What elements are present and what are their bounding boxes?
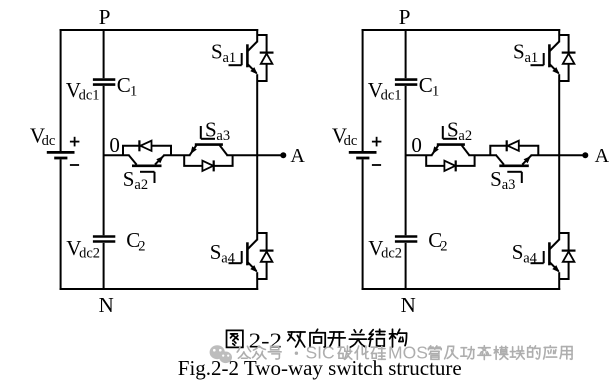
capacitor C1 xyxy=(395,80,417,85)
transistor Sa3 emitter arrow xyxy=(190,146,197,154)
transistor Sa1 IGBT body xyxy=(247,42,257,74)
caption line1 hanzi 图 xyxy=(227,330,243,347)
svg-text:A: A xyxy=(595,145,610,167)
wire left rail upper (P to battery) xyxy=(362,29,364,151)
wire diode loop below Sa3 xyxy=(184,155,232,166)
transistor Sa2 gate xyxy=(140,172,155,183)
svg-text:Fig.2-2 Two-way switch structu: Fig.2-2 Two-way switch structure xyxy=(178,356,462,380)
transistor Sa1 emitter arrow xyxy=(250,67,257,74)
diode of Sa3 (pointing left) xyxy=(508,141,519,151)
transistor Sa1 gate xyxy=(229,53,242,65)
wire diode loop below Sa2 xyxy=(426,155,474,166)
watermark hanzi 功 xyxy=(461,347,474,359)
diode of Sa2 (pointing right) xyxy=(444,161,455,171)
watermark logo bubble big xyxy=(210,345,225,359)
battery Vdc plates xyxy=(47,152,75,158)
svg-text:a3: a3 xyxy=(216,128,230,144)
svg-text:dc: dc xyxy=(42,133,56,149)
battery minus mark xyxy=(70,164,79,166)
transistor Sa2 IGBT body xyxy=(129,155,165,166)
wire left rail lower (battery to N) xyxy=(60,159,62,290)
caption line1 hanzi 关 xyxy=(349,330,366,347)
diode of Sa3 (pointing right) xyxy=(202,161,213,171)
wire capacitor branch upper (P to C1) xyxy=(405,29,407,78)
svg-text:0: 0 xyxy=(411,133,422,157)
battery plus mark xyxy=(70,137,80,147)
caption line1 hanzi 开 xyxy=(328,332,345,347)
wire top rail xyxy=(362,29,561,31)
watermark hanzi 块 xyxy=(510,346,524,359)
svg-text:a3: a3 xyxy=(502,177,516,193)
transistor Sa4 gate xyxy=(531,251,544,263)
transistor Sa3 IGBT body xyxy=(496,155,532,166)
svg-text:N: N xyxy=(401,293,416,317)
watermark hanzi 号 xyxy=(268,346,281,359)
battery Vdc plates xyxy=(349,152,377,158)
wire right branch Sa1 emitter to Sa4 collector xyxy=(558,74,560,240)
wire bottom rail xyxy=(60,288,259,290)
transistor Sa4 emitter arrow xyxy=(552,265,559,272)
wire diode loop beside Sa4 xyxy=(559,233,568,279)
svg-text:S: S xyxy=(447,118,459,142)
caption line1 hanzi 向 xyxy=(310,329,325,347)
battery minus mark xyxy=(372,164,381,166)
capacitor C2 xyxy=(395,237,417,242)
wire capacitor branch lower (C2 to N) xyxy=(103,243,105,290)
wire between middle switches xyxy=(163,154,190,156)
wire capacitor branch upper (P to C1) xyxy=(103,29,105,78)
diode of Sa1 (pointing up) xyxy=(261,54,273,64)
svg-text:dc2: dc2 xyxy=(79,246,100,262)
transistor Sa2 gate xyxy=(443,126,457,139)
svg-text:S: S xyxy=(513,39,525,63)
svg-text:N: N xyxy=(99,293,114,317)
watermark hanzi 率 xyxy=(478,346,491,360)
svg-text:a2: a2 xyxy=(134,177,148,193)
diode of Sa4 (pointing up) xyxy=(563,252,575,262)
svg-text:P: P xyxy=(399,5,411,29)
svg-text:0: 0 xyxy=(109,133,120,157)
watermark hanzi 化 xyxy=(355,346,368,359)
wire node O to first middle switch xyxy=(406,154,433,156)
svg-text:C: C xyxy=(117,73,131,97)
svg-text:dc1: dc1 xyxy=(79,88,100,104)
wire capacitor branch middle (C1 to C2 through node O) xyxy=(103,86,105,235)
svg-text:1: 1 xyxy=(432,84,439,100)
svg-text:S: S xyxy=(205,118,217,142)
svg-text:2: 2 xyxy=(440,239,447,255)
svg-text:dc2: dc2 xyxy=(381,246,402,262)
svg-text:S: S xyxy=(490,167,502,191)
svg-text:S: S xyxy=(210,240,222,264)
wire Sa4 emitter stub to bottom rail xyxy=(256,272,258,290)
transistor Sa1 IGBT body xyxy=(549,42,559,74)
watermark hanzi 应 xyxy=(544,346,557,359)
svg-text:a1: a1 xyxy=(223,50,237,66)
transistor Sa4 emitter arrow xyxy=(250,265,257,272)
svg-text:1: 1 xyxy=(130,84,137,100)
wire left rail lower (battery to N) xyxy=(362,159,364,290)
transistor Sa1 gate xyxy=(531,53,544,65)
node A junction dot xyxy=(280,152,286,158)
wire bottom rail xyxy=(362,288,561,290)
battery plus mark xyxy=(372,137,382,147)
svg-text:a4: a4 xyxy=(523,251,537,267)
watermark hanzi 碳 xyxy=(338,346,352,359)
wire diode loop beside Sa4 xyxy=(257,233,266,279)
watermark hanzi 硅 xyxy=(371,346,385,359)
transistor Sa2 IGBT body xyxy=(432,145,470,156)
node A junction dot xyxy=(582,152,588,158)
watermark hanzi 及 xyxy=(445,346,458,359)
svg-text:S: S xyxy=(123,167,135,191)
svg-text:A: A xyxy=(290,145,305,167)
watermark hanzi 用 xyxy=(560,347,572,360)
transistor Sa3 gate xyxy=(201,126,215,139)
wire Sa4 emitter stub to bottom rail xyxy=(558,272,560,290)
watermark separator dot xyxy=(295,352,298,355)
wire diode loop beside Sa1 xyxy=(559,35,568,81)
wire Sa1 collector stub xyxy=(256,29,258,42)
transistor Sa3 gate xyxy=(507,172,522,183)
watermark hanzi 众 xyxy=(253,346,266,359)
transistor Sa4 gate xyxy=(229,251,242,263)
diode of Sa1 (pointing up) xyxy=(563,54,575,64)
svg-text:S: S xyxy=(211,39,223,63)
svg-text:dc1: dc1 xyxy=(381,88,402,104)
watermark hanzi 的 xyxy=(528,346,540,359)
transistor Sa1 emitter arrow xyxy=(552,67,559,74)
diode of Sa4 (pointing up) xyxy=(261,252,273,262)
wire left rail upper (P to battery) xyxy=(60,29,62,151)
svg-text:S: S xyxy=(512,240,524,264)
wire node O to first middle switch xyxy=(104,154,130,156)
wire second middle switch to node A xyxy=(531,154,586,156)
caption line1 hanzi 结 xyxy=(369,329,385,346)
transistor Sa3 IGBT body xyxy=(190,145,228,156)
svg-text:dc: dc xyxy=(344,133,358,149)
wire right branch Sa1 emitter to Sa4 collector xyxy=(256,74,258,240)
svg-text:a2: a2 xyxy=(458,128,472,144)
diode of Sa2 (pointing left) xyxy=(140,141,151,151)
wire diode loop above Sa2 xyxy=(123,146,171,155)
transistor Sa2 emitter arrow xyxy=(432,146,439,154)
wire second middle switch to node A xyxy=(226,154,283,156)
wire diode loop beside Sa1 xyxy=(257,35,266,81)
wire capacitor branch middle (C1 to C2 through node O) xyxy=(405,86,407,235)
svg-text:a4: a4 xyxy=(221,251,235,267)
watermark hanzi 管 xyxy=(428,346,441,359)
watermark hanzi 模 xyxy=(494,346,508,359)
transistor Sa3 emitter arrow xyxy=(524,156,531,163)
wire top rail xyxy=(60,29,259,31)
capacitor C2 xyxy=(93,237,115,242)
transistor Sa2 emitter arrow xyxy=(156,156,163,163)
watermark hanzi 公 xyxy=(237,346,250,358)
watermark logo bubble small xyxy=(219,352,232,364)
caption line1 hanzi 构 xyxy=(389,329,406,347)
watermark logo eyes xyxy=(213,349,229,357)
svg-text:P: P xyxy=(99,5,111,29)
svg-text:C: C xyxy=(419,73,433,97)
capacitor C1 xyxy=(93,80,115,85)
wire capacitor branch lower (C2 to N) xyxy=(405,243,407,290)
svg-text:a1: a1 xyxy=(525,50,539,66)
wire between middle switches xyxy=(468,154,496,156)
transistor Sa4 IGBT body xyxy=(549,240,559,272)
wire diode loop above Sa3 xyxy=(490,146,538,155)
caption line1 hanzi 双 xyxy=(288,332,305,347)
svg-text:2: 2 xyxy=(138,239,145,255)
transistor Sa4 IGBT body xyxy=(247,240,257,272)
wire Sa1 collector stub xyxy=(558,29,560,42)
